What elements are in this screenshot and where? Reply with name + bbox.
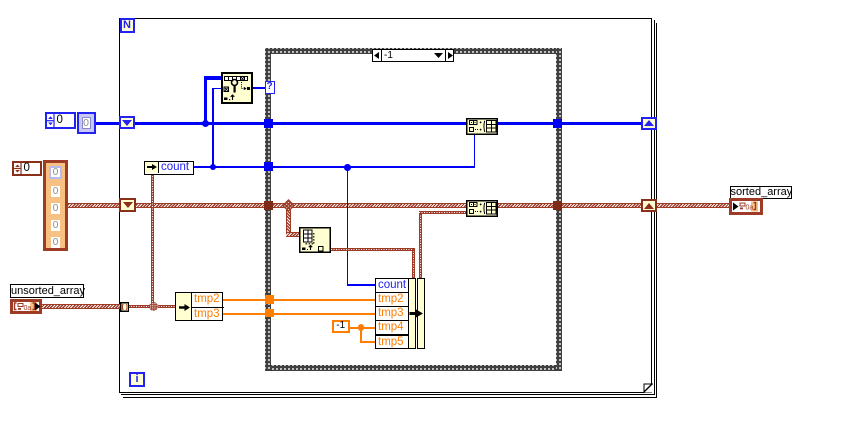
case selector label: [372, 49, 454, 62]
node: brown array constant body: [43, 160, 68, 251]
wire: unsorted array rope outside loop: [40, 304, 120, 309]
node: replace array subset #2: [466, 200, 498, 217]
node: sorted_array label: [730, 186, 792, 199]
node: bundle by name: [375, 278, 409, 349]
case structure border: left: [265, 48, 271, 371]
wire: rope branch down to index array: [286, 205, 291, 236]
wire: count wire: [193, 166, 475, 168]
wire: brown main array rope: [68, 203, 729, 208]
node: unbundle by name tmp2/tmp3: [175, 292, 223, 321]
tunnel: orange tmp2: [265, 295, 274, 304]
tunnel: orange tmp3: [265, 309, 274, 318]
wire: index array output dotted: [331, 248, 415, 251]
wire: search output to ?: [252, 87, 266, 89]
wire: cluster vertical junction to count box: [151, 173, 154, 307]
tunnel: brown left: [264, 201, 273, 210]
tunnel: blue main left: [264, 119, 273, 128]
loop iteration terminal i: [129, 372, 145, 388]
wire: bundle output dotted: [419, 212, 422, 279]
node: replace array subset #1: [466, 118, 498, 135]
node: orange junction dot: [358, 324, 365, 331]
svg-text:0a: 0a: [24, 305, 32, 312]
node: index array icon: [299, 227, 331, 253]
junction dot on count wire: [210, 164, 217, 171]
node: sorted_array terminal: [729, 198, 763, 215]
wire joints: [419, 211, 422, 214]
tunnel: blue right: [553, 119, 562, 128]
node: blue array constant index box: [45, 112, 76, 130]
case structure border: bottom: [265, 365, 562, 371]
loop count terminal N: [120, 18, 135, 33]
tunnel: blue count left: [264, 162, 273, 171]
node: blue array constant element: [77, 112, 96, 134]
node: -1 constant: [332, 320, 350, 333]
wire: count down to bundle: [347, 167, 349, 285]
shift register left brown: [119, 198, 136, 212]
tunnel: brown right: [553, 201, 562, 210]
shift register right blue: [641, 117, 657, 130]
node: junction dot blue main: [202, 120, 209, 127]
node: count local variable: [144, 161, 194, 175]
node: diamond junction: [282, 199, 295, 212]
wire: orange tmp3: [223, 313, 376, 315]
shift register left blue: [119, 116, 136, 129]
node: hatched circle junction: [149, 302, 158, 311]
tunnel: loop border unsorted []: [120, 302, 130, 312]
for loop shadow line 1: [121, 20, 655, 395]
node: search 1D array icon: [221, 72, 253, 104]
node: unsorted_array label: [10, 284, 84, 298]
wire: blue main array wire: [95, 122, 641, 126]
wire: count up to replace1 index: [474, 134, 476, 167]
node: unsorted_array terminal: [10, 299, 42, 314]
case structure border: right: [556, 48, 562, 371]
for loop shadow line 2: [123, 23, 657, 398]
wire: blue thick horizontal into search icon: [205, 76, 222, 80]
case structure border: top: [265, 48, 562, 54]
node: brown array constant index box: [12, 161, 42, 176]
case selector terminal ?: [265, 81, 275, 94]
wire: orange from -1 to tmp4/tmp5: [349, 327, 376, 329]
svg-text:0a: 0a: [746, 205, 754, 212]
wire: orange tmp2: [223, 299, 376, 301]
shift register right brown: [641, 199, 657, 213]
wire: cluster dotted inside loop to unbundle: [126, 305, 176, 308]
wire: blue thick vertical to search icon: [204, 76, 208, 124]
for loop border: [119, 18, 652, 393]
wire: search element input thin: [212, 88, 222, 90]
loop resize corner notch: [643, 383, 653, 393]
